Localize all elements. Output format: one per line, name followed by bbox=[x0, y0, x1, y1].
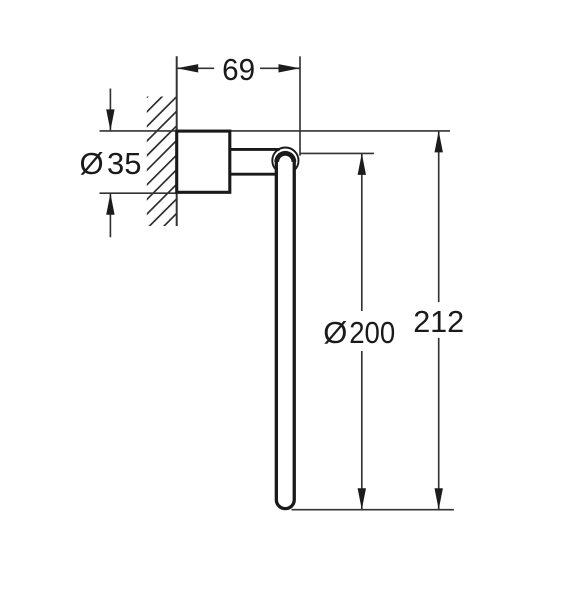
svg-text:69: 69 bbox=[222, 52, 255, 87]
svg-text:Ø: Ø bbox=[80, 146, 104, 181]
svg-text:200: 200 bbox=[349, 315, 395, 350]
svg-text:Ø: Ø bbox=[323, 315, 347, 350]
svg-text:212: 212 bbox=[413, 304, 464, 339]
svg-text:35: 35 bbox=[107, 146, 141, 181]
